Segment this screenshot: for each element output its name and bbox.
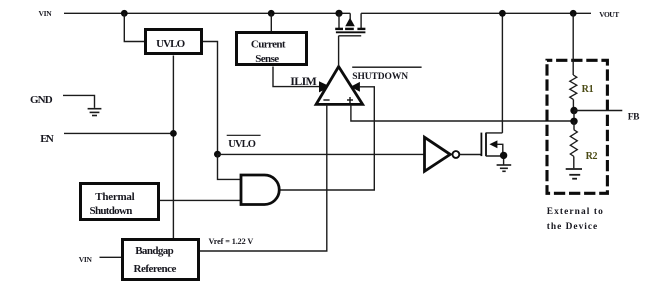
wire UVLO-bar to inverter [218,153,425,155]
resistor R1 [570,75,594,99]
wire R1 bottom lead [572,99,574,107]
svg-text:Thermal: Thermal [95,191,134,203]
wire R2 bottom lead [573,156,575,168]
node junction VIN-UVLO [121,10,128,17]
svg-text:the Device: the Device [547,222,598,232]
wire comparator minus to Vref [200,104,327,251]
svg-text:Reference: Reference [134,263,177,275]
op-amp comparator [316,67,363,105]
svg-text:EN: EN [40,133,54,145]
svg-text:ILIM: ILIM [290,74,316,88]
ground NMOS source [497,159,512,171]
svg-text:VIN: VIN [39,9,53,18]
wire comparator plus to FB [351,104,574,121]
svg-text:R2: R2 [586,151,598,162]
Bandgap Reference block [123,240,199,280]
wire FB [574,110,622,112]
net label SHUTDOWN with overbar [352,67,421,82]
node FB [570,107,577,114]
Current Sense block [237,33,307,65]
wire R2 top lead [573,121,575,129]
svg-text:Current: Current [251,38,286,50]
dashed box external network [547,60,607,193]
svg-text:GND: GND [30,94,53,106]
AND gate [241,175,279,205]
Thermal Shutdown block [81,184,159,220]
wire UVLO input [124,13,145,41]
arrow ILIM input [319,81,331,92]
net label UVLO-bar [227,135,261,150]
ground R2 [566,169,582,179]
resistor R2 [570,130,597,162]
wire comparator output to gate [338,36,340,67]
wire inverter output [460,154,482,156]
node junction feedback [570,118,577,125]
svg-text:Vref = 1.22 V: Vref = 1.22 V [209,237,254,246]
wire SHUTDOWN from AND gate [279,87,374,190]
wire EN [64,132,173,134]
node junction PMOS source [335,10,342,17]
wire R1 top lead [572,13,574,75]
svg-text:Bandgap: Bandgap [135,245,173,257]
wire VIN top rail left [64,12,350,14]
UVLO block [146,30,202,54]
wire current sense top [270,13,272,31]
wire ILIM [273,67,320,87]
label external [547,207,604,232]
wire FB node link [573,111,575,122]
svg-text:SHUTDOWN: SHUTDOWN [352,72,408,82]
wire UVLO output to UVLO-bar node [203,42,218,155]
node junction R1 top [570,10,577,17]
wire NMOS drain to VOUT rail [501,13,503,133]
ground GND pin [88,109,102,116]
svg-text:FB: FB [628,112,640,122]
svg-text:Shutdown: Shutdown [90,205,133,217]
svg-text:R1: R1 [582,84,594,95]
wire UVLO block bottom to bandgap [172,56,174,239]
svg-text:VIN: VIN [79,255,93,264]
svg-text:UVLO: UVLO [228,139,255,150]
arrow SHUTDOWN input [351,82,360,92]
wire VOUT top rail right [361,12,591,14]
node junction current-sense top [268,10,275,17]
node junction EN [170,130,177,137]
node junction UVLO-bar [214,151,221,158]
node junction NMOS drain [499,10,506,17]
transistor Q1 PMOS pass [335,13,365,36]
wire GND stub [63,95,95,108]
transistor Q2 NMOS discharge [481,133,507,159]
wire VIN bandgap stub [100,256,122,258]
svg-text:External to: External to [547,207,604,217]
svg-text:UVLO: UVLO [156,38,186,50]
wire UVLO-bar to AND input 1 [218,154,242,179]
inverter [425,137,460,171]
svg-text:Sense: Sense [255,53,279,65]
wire thermal shutdown to AND input 2 [160,199,241,201]
svg-text:VOUT: VOUT [599,10,619,19]
